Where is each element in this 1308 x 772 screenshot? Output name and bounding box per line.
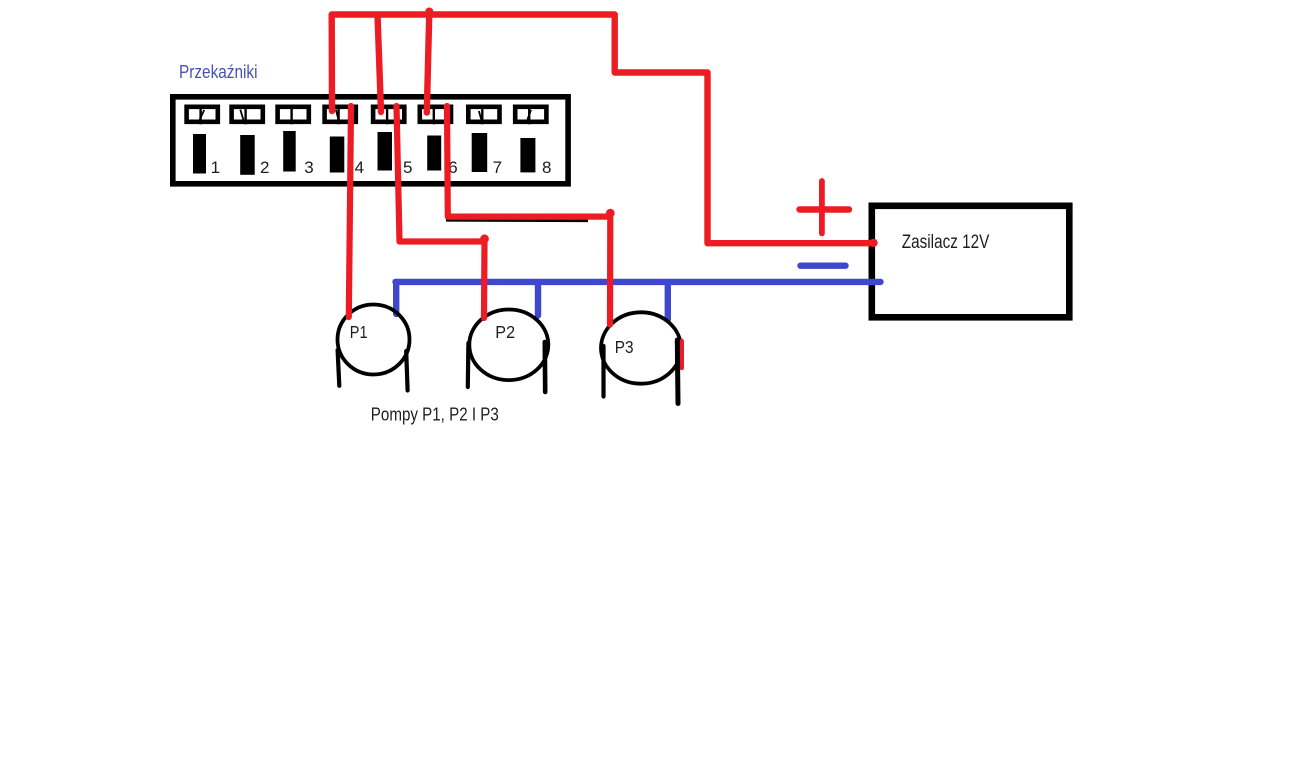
svg-text:7: 7	[493, 158, 502, 177]
black guide line under relay 6 wire	[446, 219, 588, 222]
label P3	[615, 337, 634, 357]
red branch wire to relay 5 terminal	[378, 15, 382, 113]
svg-text:4: 4	[355, 158, 364, 177]
minus symbol of power supply	[801, 263, 846, 269]
relay body bar 8	[520, 138, 535, 172]
relay terminal block 7	[468, 105, 499, 125]
svg-text:Zasilacz 12V: Zasilacz 12V	[902, 232, 990, 253]
relay terminal block 5	[373, 105, 404, 125]
relay body bar 7	[472, 133, 488, 172]
relay body bar 4	[330, 137, 345, 173]
label P2	[495, 322, 515, 342]
relay number 4	[355, 158, 364, 177]
relay terminal block 4	[325, 105, 356, 125]
relay number 2	[260, 158, 269, 177]
power supply box Zasilacz 12V	[872, 206, 1070, 317]
red wire relay 4 to pump P1	[349, 106, 351, 317]
relay number 3	[304, 158, 313, 177]
relay number 8	[542, 158, 551, 177]
red wire relay 5 to pump P2	[397, 106, 489, 318]
svg-text:5: 5	[403, 158, 412, 177]
relay body bar 5	[378, 132, 393, 171]
pump P1 circle	[338, 305, 410, 375]
pump P2 circle	[469, 310, 548, 381]
red positive feed wire from relays to power supply	[332, 15, 878, 248]
svg-text:2: 2	[260, 158, 269, 177]
pump P3 circle	[601, 312, 681, 383]
relay body bar 1	[193, 134, 206, 174]
blue negative bus wire	[396, 279, 881, 285]
blue drop wire to pump P1	[393, 282, 399, 314]
relay terminal block 6	[420, 105, 451, 125]
svg-text:Pompy P1, P2 I P3: Pompy P1, P2 I P3	[371, 404, 499, 425]
blue drop wire to pump P3	[665, 282, 671, 320]
label Pompy P1, P2 I P3	[371, 404, 499, 425]
blue drop wire to pump P2	[535, 282, 541, 316]
red paint fragment behind pump P3 right leg	[680, 341, 684, 368]
relay number 7	[493, 158, 502, 177]
relay body bar 2	[240, 135, 255, 175]
svg-text:8: 8	[542, 158, 551, 177]
relay module box (Przekaźniki)	[173, 97, 568, 184]
label P1	[350, 322, 368, 342]
relay terminal block 8	[515, 105, 546, 125]
plus symbol of power supply	[800, 181, 850, 233]
label Zasilacz 12V	[902, 232, 990, 253]
svg-text:Przekaźniki: Przekaźniki	[179, 61, 258, 82]
pump P2 left leg	[466, 343, 471, 387]
relay terminal block 1	[187, 105, 218, 125]
relay number 5	[403, 158, 412, 177]
red wire relay 6 to pump P3	[447, 106, 615, 325]
svg-text:3: 3	[304, 158, 313, 177]
pump P3 left leg	[601, 346, 605, 397]
pump P1 left leg	[338, 350, 340, 386]
pump P2 right leg	[542, 342, 547, 392]
svg-text:P2: P2	[495, 322, 515, 342]
relay body bar 6	[427, 136, 441, 171]
relay number 1	[211, 158, 220, 177]
svg-text:1: 1	[211, 158, 220, 177]
red branch wire to relay 6 terminal	[425, 8, 433, 113]
pump P1 right leg	[406, 351, 407, 391]
relay terminal block 2	[232, 105, 263, 125]
relay terminal block 3	[278, 105, 309, 125]
relay number 6	[448, 158, 457, 177]
pump P3 right leg	[675, 340, 681, 404]
svg-text:P1: P1	[350, 322, 368, 342]
label Przekaźniki	[179, 61, 258, 82]
relay body bar 3	[283, 131, 296, 172]
svg-text:P3: P3	[615, 337, 634, 357]
